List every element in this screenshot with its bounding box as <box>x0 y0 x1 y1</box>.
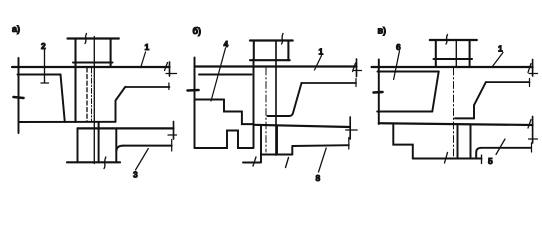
left panel a: top <box>18 74 61 76</box>
leader for label 1 (fig b) <box>315 56 322 71</box>
leader for label 1 (fig v) <box>492 53 503 68</box>
slab left edge b: thick break tick <box>188 89 199 92</box>
lower floor line v: break tick <box>528 120 538 140</box>
leader for label 3 <box>136 149 149 171</box>
upper column stub b: bottom line <box>250 59 290 61</box>
right panel v: underside end tick <box>529 79 531 87</box>
svg-text:4: 4 <box>224 39 229 49</box>
leader for label 4 <box>211 48 226 101</box>
left panel v: top <box>378 71 439 73</box>
floor line b: end bar <box>356 59 358 77</box>
column axis v (dash-dot) <box>453 68 455 158</box>
slab left edge v <box>378 60 380 125</box>
left panel b: bottom <box>195 99 225 101</box>
floor line b: break tick <box>353 63 362 72</box>
bottom cut line b: break mark <box>253 157 256 166</box>
upper column stub b: right side <box>287 41 289 61</box>
bottom cut line v: break mark <box>445 153 448 164</box>
hidden column edge a (dashed) <box>86 68 88 121</box>
lower right panel 3: top surface <box>124 145 172 147</box>
column axis a <box>93 37 95 164</box>
column left face a <box>74 39 76 123</box>
right panel v: haunch web <box>473 105 475 118</box>
leader for label 8 <box>319 148 327 172</box>
svg-text:1: 1 <box>498 44 503 54</box>
column right face b <box>275 41 277 156</box>
lower floor line b <box>254 125 350 127</box>
slab left edge v: thick break tick <box>374 91 383 94</box>
bottom seat b: break mark <box>286 158 289 168</box>
leader for label 6 <box>394 51 400 80</box>
lower right panel 8: top surface <box>292 144 349 147</box>
left panel a: right slanted edge <box>61 75 65 123</box>
left panel b: step edge 1 <box>224 100 242 112</box>
lower column v: right side <box>470 125 472 158</box>
upper column stub a: break mark <box>85 34 87 44</box>
floor line a <box>12 66 170 68</box>
bottom cut line v: end tick <box>481 155 483 164</box>
svg-text:а): а) <box>12 24 20 34</box>
upper column stub a: cut line <box>68 37 119 39</box>
left panel v: right slanted edge <box>432 72 438 112</box>
svg-text:в): в) <box>378 26 387 36</box>
bottom cut line a: break mark <box>104 157 106 169</box>
lower right panel 3: web <box>115 128 117 162</box>
lower floor line b: end bar <box>349 117 351 139</box>
right panel v: haunch diagonal <box>474 82 486 105</box>
right panel b: haunch bottom <box>268 115 290 117</box>
lower column b: right side <box>276 126 278 154</box>
floor line b <box>195 65 357 67</box>
floor line v: break tick <box>528 64 538 74</box>
lower column a: right side <box>98 122 100 163</box>
svg-text:6: 6 <box>396 42 401 52</box>
right panel b: haunch diagonal <box>289 83 302 116</box>
svg-text:2: 2 <box>41 41 46 51</box>
svg-text:1: 1 <box>145 42 150 52</box>
slab left edge a: thick break tick <box>14 97 24 98</box>
lower column v: left side <box>457 125 459 158</box>
svg-text:3: 3 <box>133 170 138 180</box>
slab left edge a <box>18 58 20 133</box>
left panel b: top <box>199 74 252 76</box>
right panel b: underside end tick <box>355 79 357 87</box>
lower floor line a: break tick <box>168 134 177 136</box>
lower right panel 3: fillet <box>116 146 123 151</box>
lower right panel 3: end tick <box>171 140 173 152</box>
lower right panel 8: end tick <box>348 138 350 150</box>
leader for label 5 <box>496 139 505 155</box>
upper column stub a: bottom line <box>73 61 113 63</box>
lower column b: left side <box>260 126 262 162</box>
lower column a: left side <box>77 128 79 162</box>
upper column stub v: break mark <box>446 35 448 45</box>
upper column stub b: cut line <box>250 39 293 41</box>
right panel a: thin underside <box>125 86 169 88</box>
lower left panel b: top with tab <box>195 131 253 149</box>
slab left edge b <box>194 58 196 149</box>
left panel a: bottom joint line <box>19 121 116 123</box>
svg-text:1: 1 <box>319 47 324 57</box>
bottom seat line b <box>261 154 292 156</box>
bottom cut line b (left) <box>243 162 260 164</box>
lower right panel 5: end tick <box>531 143 533 152</box>
right panel a: haunch diagonal and web <box>116 87 126 122</box>
floor line a: end bar <box>169 62 171 76</box>
column right face v below stub <box>469 59 471 67</box>
left panel v: bottom <box>377 111 432 113</box>
lower left step v: edge <box>393 123 413 158</box>
leader for label 1 (fig a) <box>141 52 146 67</box>
right panel b: thin underside <box>302 82 357 84</box>
lower right panel 5: top surface <box>481 147 531 149</box>
floor line v: end bar <box>532 60 534 77</box>
lower floor line v: end bar <box>532 117 534 144</box>
lower right panel 8: seat edge <box>291 147 293 155</box>
hidden axis a (dash-dot) <box>91 68 93 121</box>
upper column stub b: left side <box>253 41 255 61</box>
column axis b (dash-dot) <box>265 68 267 152</box>
upper column stub a: right side <box>110 39 112 68</box>
svg-text:8: 8 <box>316 173 321 183</box>
right panel a: underside end tick <box>168 83 170 90</box>
lower floor line b: break tick <box>346 129 358 131</box>
bottom cut line v <box>413 157 482 159</box>
bottom cut line a <box>67 161 120 163</box>
svg-text:5: 5 <box>488 156 493 166</box>
right panel v: haunch bottom <box>455 117 474 119</box>
leader for label 2 <box>41 50 49 83</box>
lower floor line a: end bar <box>173 122 175 140</box>
upper column stub v: cut line <box>430 39 477 41</box>
svg-text:б): б) <box>193 26 202 36</box>
right panel v: thin underside <box>486 81 530 83</box>
lower floor line v <box>379 123 533 125</box>
floor line a: break tick <box>165 63 177 74</box>
upper column stub v: centre line <box>455 40 457 67</box>
column left face b <box>253 59 255 148</box>
upper column stub v: right side <box>469 40 471 59</box>
lower right panel 5: web and fillet <box>476 148 481 159</box>
lower floor line a <box>78 127 174 129</box>
left panel b: step edge 2 <box>242 112 253 125</box>
upper column stub b: break mark <box>282 34 284 45</box>
floor line v <box>372 66 533 68</box>
upper column stub v: bottom line <box>434 58 473 60</box>
upper column stub v: left side <box>435 40 437 67</box>
